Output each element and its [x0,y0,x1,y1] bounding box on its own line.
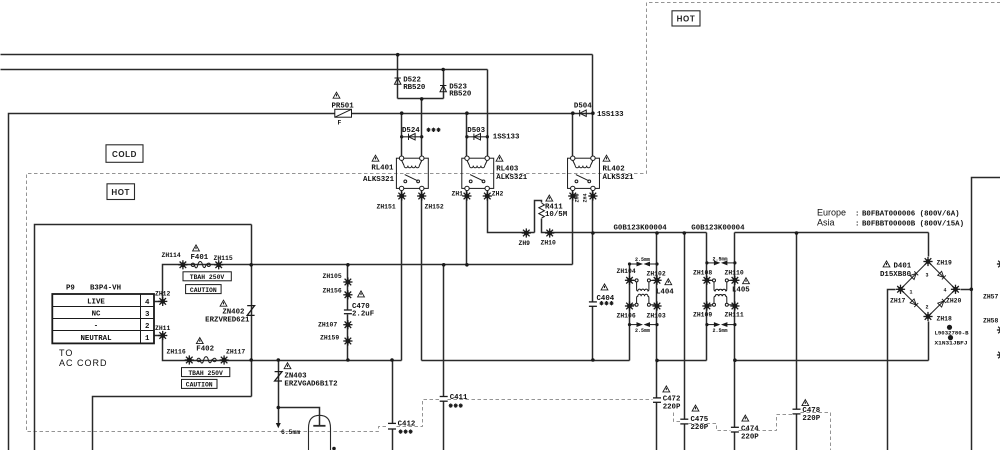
node ZH18 [923,312,952,323]
svg-text:3: 3 [926,273,929,279]
junction at 629.5,264 [628,262,631,265]
junction at 706.9,324.6 [705,323,708,326]
svg-text:ZH1: ZH1 [452,191,464,198]
wire C475 branch [684,233,686,420]
svg-text:ZH10: ZH10 [541,240,557,247]
D401 labels [880,261,912,279]
svg-text:P9: P9 [66,285,75,293]
wire coil feed RL401 [421,99,423,159]
wire RL401 left pin down [401,189,403,361]
wire C475 lower lead [684,424,686,450]
junction at 657,264 [655,262,658,265]
wire L404 left column [629,265,631,361]
svg-text:RL402: RL402 [603,166,625,174]
capacitor C412 [388,421,415,434]
discharge tube [309,415,331,450]
wire RL401 left pin up [401,114,403,159]
svg-text:RL403: RL403 [496,166,519,174]
wire L405 right column [734,233,736,428]
wire RL403 left pin down [466,189,468,265]
wire RL403 right pin down [488,189,535,233]
svg-text:ZH114: ZH114 [162,252,181,259]
svg-text:4: 4 [944,288,947,294]
wire ZN402 branch [251,225,253,397]
node ZH104 [617,268,636,285]
wire R411 bottom lead [542,219,707,233]
capacitor C411 [440,394,468,408]
svg-text:TBAH 250V: TBAH 250V [190,274,225,281]
svg-text:1SS133: 1SS133 [493,134,520,142]
junction at 347.9,360 [346,358,350,362]
relay RL401 ALKS321 [363,155,428,190]
bridge diode 2 (top-right) [938,271,946,279]
junction at 629.5,324.6 [628,323,631,326]
node ZH9 [519,228,531,247]
node ZH108 [693,269,712,285]
wire C478 lower lead [796,414,798,450]
L404 top dimension 2.5mm [630,262,658,265]
svg-text:ZN403: ZN403 [284,372,307,380]
wire ZN403 branch [278,361,280,424]
wire C411 branch [443,265,445,397]
junction at 796.5,233 [795,231,799,235]
relay RL402 ALKS321 [568,155,635,190]
svg-text:ZH156: ZH156 [323,288,342,295]
wire hot rail right of L405 [735,232,929,234]
node ZH110 [725,269,744,285]
node ZH103 [647,301,666,319]
L405 top dimension 2.5mm [707,261,735,264]
svg-text:ZH111: ZH111 [725,312,744,319]
svg-text:ERZVRED621: ERZVRED621 [205,317,250,325]
svg-text:F: F [338,120,342,127]
node ZH12 [155,291,171,306]
wire bridge plus output [961,289,972,291]
svg-text:TBAH 250V: TBAH 250V [188,370,223,377]
junction at 251.2,360 [249,358,253,362]
svg-text:220P: 220P [691,424,709,432]
wire ZN403 to discharge tube [279,408,320,426]
svg-text:ZH104: ZH104 [617,268,636,275]
node ZH3 [568,191,580,202]
svg-text:ZH2: ZH2 [492,191,504,198]
choke L404 [630,279,672,307]
wire C411 lower lead [443,402,445,450]
wire C478 branch [796,233,798,410]
svg-text:ZH108: ZH108 [693,269,712,276]
junction at 971.3,289.3 [970,288,974,292]
svg-text:HOT: HOT [677,15,696,24]
fuse F402 [196,338,216,363]
right edge partial stars [997,259,1000,268]
junction at 401.7,113.2 [400,111,404,115]
node ZH1 [452,191,472,201]
svg-text:B0FBAT000006 (800V/6A): B0FBAT000006 (800V/6A) [862,210,960,218]
wire RL402 right pin down / C404 branch [592,189,594,302]
wire RL403 left pin up [466,114,468,159]
svg-text:ZN402: ZN402 [222,308,244,316]
wire neutral rail segment D [735,360,929,362]
svg-text:ZH103: ZH103 [647,313,666,320]
svg-text:X1N31JBFJ: X1N31JBFJ [935,340,968,346]
svg-text:ZH11: ZH11 [155,325,171,332]
junction at 734.9,360.2 [733,358,737,362]
wire C470 branch upper [347,265,349,310]
svg-text:ZH109: ZH109 [693,312,712,319]
svg-text:2.5mm: 2.5mm [635,328,650,334]
node ZH114 [162,252,188,269]
wire RL402 left pin up [572,114,574,159]
junction at 443.2,69.5 [441,68,445,72]
varistor ZN403 [275,363,338,389]
wire bridge bottom feed [928,322,930,361]
wire top rail 0.5 [1,54,593,56]
L405 bottom dimension 2.5mm [707,323,735,326]
svg-text:1: 1 [145,335,150,343]
junction at 421.7,98.9 [420,97,424,101]
diode D524 [402,127,441,140]
node ZH117 [220,349,246,365]
fuse F401 [191,245,211,268]
node ZH20 [946,285,962,305]
node ZH19 [923,257,952,267]
svg-text:4: 4 [145,299,150,307]
svg-text:C412: C412 [398,421,416,429]
bridge rectifier D401 D15XB80 [901,262,956,317]
svg-text:ALKS321: ALKS321 [496,174,528,182]
svg-text:ALKS321: ALKS321 [363,176,395,184]
svg-text:ZH151: ZH151 [377,204,396,211]
svg-text:-: - [94,323,98,331]
svg-text:C474: C474 [741,425,759,433]
svg-text:CAUTION: CAUTION [190,287,217,294]
svg-text:ZH58: ZH58 [983,317,999,324]
junction at 684.3,233 [683,231,687,235]
junction at 397.7,54.7 [396,53,400,57]
svg-text:1: 1 [910,290,913,296]
svg-text:ZH20: ZH20 [946,297,962,304]
wire live line F401 [163,265,573,302]
svg-text:220P: 220P [741,433,759,441]
svg-text:AC CORD: AC CORD [59,358,108,368]
wire C472 lower lead [656,403,658,450]
bridge diode 3 (left-bottom) [910,299,918,307]
wire C412 branch [392,361,394,424]
svg-text:6.5mm: 6.5mm [281,429,300,436]
wire C404 lower lead [592,307,594,361]
svg-text:ZH116: ZH116 [167,349,186,356]
connector P9 table [52,294,154,343]
wire L405 left column [706,233,708,361]
F402 rating box TBAH 250V [182,368,230,377]
svg-text:ZH159: ZH159 [320,335,339,342]
svg-text:ALKS321: ALKS321 [603,174,635,182]
svg-text:R411: R411 [545,203,563,211]
junction at 347.9,264.8 [346,263,350,267]
svg-text:NEUTRAL: NEUTRAL [80,335,112,343]
svg-text:ERZVGAD6B1T2: ERZVGAD6B1T2 [284,381,337,389]
node ZH11 [155,325,171,340]
svg-text:ZH105: ZH105 [323,273,342,280]
svg-text:Asia: Asia [817,217,835,227]
COLD label box [106,145,143,163]
wire bridge top feed [928,233,930,257]
diode D504 1SS133 [574,103,624,120]
wire ZH12 stub [155,301,163,303]
part number L9032780-B [935,325,969,347]
svg-text:F401: F401 [191,254,209,262]
junction at 278.3,360 [277,358,281,362]
svg-text:ZH110: ZH110 [725,269,744,276]
HOT label box (left) [107,184,135,200]
svg-text:TO: TO [59,348,73,358]
svg-text:ZH9: ZH9 [519,240,531,247]
wire D522 branch [397,55,399,99]
svg-text:B3P4-VH: B3P4-VH [90,285,121,293]
svg-text:D524: D524 [402,127,420,135]
wire RL402 left pin down [572,189,574,265]
junction at 657,360.4 [655,359,659,363]
wire main AC line (PR501 line) [9,114,593,450]
L404 bottom dimension 2.5mm [630,323,658,326]
choke L405 [707,278,749,307]
capacitor C470 [344,291,374,319]
node ZH116 [167,349,194,365]
svg-text:2.5mm: 2.5mm [635,257,650,263]
wire top rail 2.5 [1,69,488,71]
svg-text:L405: L405 [732,286,750,294]
capacitor C404 [589,284,615,306]
capacitor C478 220P [793,400,821,424]
svg-text::: : [855,220,859,228]
wire RL402 right pin up [592,55,594,159]
svg-text:C404: C404 [597,295,615,303]
svg-text:ZH152: ZH152 [425,204,444,211]
junction at 734.9,324.6 [733,323,736,326]
svg-text:F402: F402 [196,345,214,353]
svg-text:ZH17: ZH17 [890,297,906,304]
svg-text:ZH107: ZH107 [318,321,337,328]
junction at 592.9,113.2 [591,111,595,115]
wire D523 branch [443,70,445,99]
wire neutral line F402 [163,336,402,361]
F402 caution box [182,379,218,388]
svg-text:Europe: Europe [817,207,846,217]
relay RL403 ALKS321 [462,155,528,190]
svg-text:PR501: PR501 [332,102,355,110]
svg-text:D504: D504 [574,103,592,111]
node ZH111 [725,301,744,318]
bridge diode 4 (bottom-right) [938,299,946,307]
svg-text:2.5mm: 2.5mm [713,256,728,262]
svg-text:G0B123K00004: G0B123K00004 [691,224,745,232]
capacitor C474 220P [731,415,759,441]
wire diode bottom link [398,98,444,100]
wire neutral rail segment C [657,360,707,362]
wire C412 lower lead [392,429,394,450]
junction at 278.3,407.5 [277,406,281,410]
protector PR501 [332,92,355,126]
wire connector box outline [35,225,252,450]
svg-text:220P: 220P [663,403,681,411]
svg-text:RL401: RL401 [371,164,394,172]
node ZH107 [318,320,353,329]
junction at 572.8,113.2 [571,111,575,115]
svg-text:ZH4: ZH4 [583,193,589,202]
svg-text:D503: D503 [467,127,485,135]
wire right vertical rail [972,178,1000,450]
junction at 657,324.6 [655,323,658,326]
svg-text:ZH12: ZH12 [155,291,171,298]
svg-text:COLD: COLD [112,150,137,159]
diode D523 RB520 [440,83,472,98]
bridge diode 1 (left-top) [910,271,918,279]
junction at 251.2,264.8 [249,263,253,267]
node ZH151 [377,191,407,210]
wire C474 lower lead [734,433,736,450]
node ZH109 [693,301,712,318]
node ZH4 [583,191,598,202]
svg-text:1SS133: 1SS133 [597,111,624,119]
cut-off mark bottom [332,447,336,450]
svg-text:LIVE: LIVE [87,299,105,307]
svg-text:2: 2 [926,305,929,311]
junction at 657,233 [655,231,659,235]
node ZH10 [541,228,557,246]
svg-text:RB520: RB520 [449,91,472,99]
svg-text:2.5mm: 2.5mm [713,328,728,334]
node ZH102 [647,271,666,285]
node ZH156 [323,288,353,300]
svg-text:ZH18: ZH18 [937,315,953,322]
diode D503 1SS133 [467,127,520,142]
svg-text:ZH102: ZH102 [647,271,666,278]
capacitor C472 220P [653,386,681,411]
wire R411 jog [535,201,542,233]
node ZH115 [214,255,233,269]
node ZH105 [323,273,353,287]
svg-text:HOT: HOT [111,188,130,197]
svg-text::: : [855,210,859,218]
F401 rating box TBAH 250V [183,272,231,281]
svg-text:ZH57: ZH57 [983,293,999,300]
svg-text:C475: C475 [691,416,709,424]
F401 caution box [186,285,222,294]
svg-text:ZH3: ZH3 [575,193,581,202]
wire bridge minus output [888,290,896,450]
svg-text:C478: C478 [802,407,820,415]
wire RL403 right pin up [487,70,489,159]
junction at 466.9,113.2 [465,111,469,115]
varistor ZN402 [205,300,254,324]
svg-text:RB520: RB520 [403,84,426,92]
junction at 592.9,360 [591,358,595,362]
junction at 592.9,233 [591,231,595,235]
wire RL401 right pin down [421,189,423,361]
svg-text:ZH117: ZH117 [226,349,245,356]
svg-text:3: 3 [145,311,150,319]
svg-text:D401: D401 [894,262,912,270]
capacitor C475 220P [680,405,709,432]
svg-text:2.2uF: 2.2uF [352,311,374,319]
wire L404 right column [656,233,658,398]
svg-text:B0FBBT00000B (800V/15A): B0FBBT00000B (800V/15A) [862,220,964,228]
resistor R411 10/5M [539,195,568,219]
wire ZH11 stub [155,335,163,337]
svg-text:10/5M: 10/5M [545,211,568,219]
junction at 466.9,264.8 [465,263,469,267]
HOT label box (top right) [672,11,700,26]
wire neutral rail segment B [422,360,630,362]
wire connector box bottom [93,397,252,450]
svg-text:ZH106: ZH106 [617,313,636,320]
diode D522 RB520 [395,77,426,92]
svg-text:CAUTION: CAUTION [186,382,213,389]
svg-text:ZH115: ZH115 [214,255,233,262]
svg-text:C411: C411 [450,394,468,402]
svg-text:L404: L404 [656,288,674,296]
node ZH106 [617,301,636,319]
node ZH17 [890,285,906,305]
wire C470 branch lower [347,315,349,361]
node ZH152 [417,191,444,210]
svg-text:G0B123K00004: G0B123K00004 [614,224,668,232]
ZN403 earth arrow [276,423,281,428]
junction at 392,360 [390,358,394,362]
svg-text:ZH19: ZH19 [937,259,953,266]
svg-text:220P: 220P [802,415,820,423]
svg-text:D15XB80: D15XB80 [880,271,912,279]
svg-text:NC: NC [92,311,101,319]
node ZH159 [320,335,353,346]
svg-text:2: 2 [145,323,149,331]
node ZH2 [483,191,504,201]
junction at 706.9,262.9 [705,261,708,264]
junction at 734.9,262.9 [733,261,736,264]
junction at 443.7,264.8 [442,263,446,267]
